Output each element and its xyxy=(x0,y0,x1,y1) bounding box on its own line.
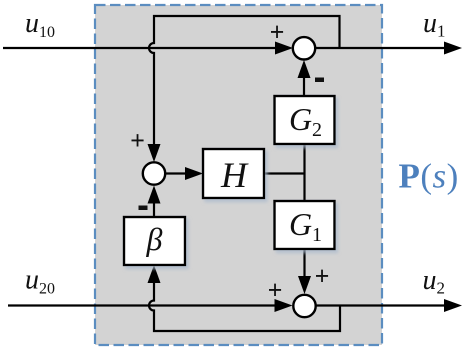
svg-text:+: + xyxy=(315,262,330,291)
arrowhead into summing junction S1 xyxy=(275,42,293,55)
arrowhead into S2 minus input xyxy=(148,186,161,204)
block G1 xyxy=(275,201,335,249)
block H xyxy=(203,149,264,198)
wire u10 input line xyxy=(3,47,282,49)
arrowhead into S1 minus input xyxy=(298,60,311,78)
arrowhead u2 output xyxy=(444,299,462,312)
svg-text:u10: u10 xyxy=(25,8,55,41)
svg-text:β: β xyxy=(146,221,163,257)
svg-text:H: H xyxy=(220,155,249,195)
wire u1 output line xyxy=(316,47,446,49)
summing junction S2 xyxy=(143,162,165,184)
wire S2 to H xyxy=(165,172,192,174)
svg-text:+: + xyxy=(270,18,285,47)
arrowhead into S2 plus input xyxy=(148,144,161,162)
arrowhead into S3 plus input xyxy=(298,276,311,294)
wire u20 input line xyxy=(8,304,281,306)
wire G2-G1 column connector xyxy=(303,144,305,201)
wire G1 output down to S3 xyxy=(303,249,305,284)
block beta xyxy=(124,217,185,265)
svg-text:u1: u1 xyxy=(423,8,446,41)
svg-text:P(s): P(s) xyxy=(399,157,459,196)
svg-text:+: + xyxy=(268,276,283,305)
svg-text:u20: u20 xyxy=(25,265,55,298)
wire u2 output line xyxy=(316,304,446,306)
arrowhead into H xyxy=(185,167,203,180)
wire beta output up to S2 minus xyxy=(153,196,155,217)
svg-text:+: + xyxy=(130,126,145,155)
summing junction S1 xyxy=(293,37,315,59)
block G2 xyxy=(275,96,335,144)
plant boundary dashed box P(s) xyxy=(95,5,382,345)
wire bottom feedback u2 tap to beta (with hop over u20) xyxy=(149,276,340,331)
sign minus at S1 (G2 input) xyxy=(315,78,324,83)
wire H output to G column node xyxy=(264,172,305,174)
arrowhead into beta block xyxy=(148,265,161,283)
arrowhead u1 output xyxy=(444,42,462,55)
sign minus at S2 (beta input) xyxy=(139,206,148,211)
wire G2 output up to S1 xyxy=(303,70,305,96)
arrowhead into S3 xyxy=(275,299,293,312)
summing junction S3 xyxy=(293,295,315,317)
wire top feedback u1 tap to S2 (with hop over u10) xyxy=(149,16,340,152)
svg-text:u2: u2 xyxy=(423,265,446,298)
